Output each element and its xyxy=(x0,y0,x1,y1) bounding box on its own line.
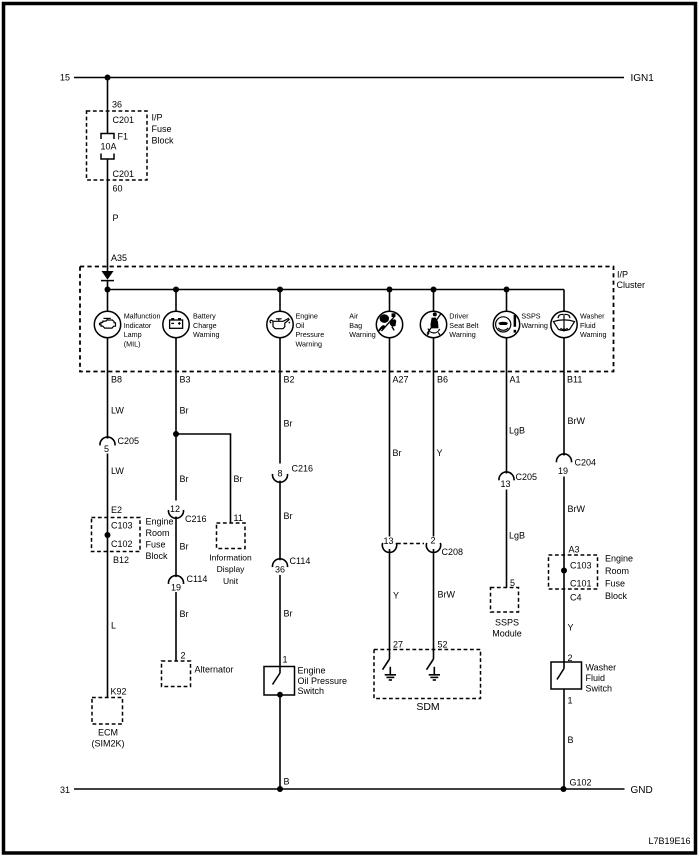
svg-text:C101: C101 xyxy=(570,578,592,588)
svg-text:Room: Room xyxy=(605,566,629,576)
svg-text:Washer: Washer xyxy=(580,311,605,320)
svg-text:Fluid: Fluid xyxy=(586,673,606,683)
svg-text:B: B xyxy=(568,735,574,745)
svg-text:Br: Br xyxy=(284,418,293,428)
svg-text:10A: 10A xyxy=(101,142,117,152)
svg-text:Bag: Bag xyxy=(349,321,362,330)
svg-text:E2: E2 xyxy=(111,505,122,515)
svg-text:Battery: Battery xyxy=(193,311,216,320)
svg-text:Alternator: Alternator xyxy=(195,664,234,674)
svg-text:G102: G102 xyxy=(570,777,592,787)
svg-text:BrW: BrW xyxy=(568,416,586,426)
svg-text:31: 31 xyxy=(60,785,70,795)
svg-text:(MIL): (MIL) xyxy=(124,340,141,349)
svg-text:52: 52 xyxy=(438,639,448,649)
svg-text:15: 15 xyxy=(60,73,70,83)
svg-text:Driver: Driver xyxy=(449,311,469,320)
svg-text:ECM: ECM xyxy=(98,727,118,737)
svg-text:LgB: LgB xyxy=(509,425,525,435)
svg-text:Cluster: Cluster xyxy=(617,280,646,290)
svg-text:Warning: Warning xyxy=(580,330,607,339)
svg-text:13: 13 xyxy=(384,536,394,546)
svg-text:Lamp: Lamp xyxy=(124,330,142,339)
svg-text:Pressure: Pressure xyxy=(296,330,325,339)
svg-text:LW: LW xyxy=(111,405,124,415)
svg-text:Room: Room xyxy=(146,528,170,538)
svg-text:SSPS: SSPS xyxy=(495,617,519,627)
svg-text:SDM: SDM xyxy=(416,701,439,713)
svg-text:Warning: Warning xyxy=(349,330,376,339)
svg-text:B6: B6 xyxy=(437,374,448,384)
svg-text:Seat Belt: Seat Belt xyxy=(449,321,478,330)
svg-text:Y: Y xyxy=(437,448,443,458)
svg-text:Br: Br xyxy=(284,511,293,521)
svg-text:Br: Br xyxy=(180,609,189,619)
svg-text:C205: C205 xyxy=(516,472,538,482)
svg-text:Engine: Engine xyxy=(298,665,326,675)
svg-text:L7B19E16: L7B19E16 xyxy=(649,836,691,846)
svg-text:5: 5 xyxy=(104,444,109,454)
svg-text:B3: B3 xyxy=(180,374,191,384)
svg-text:Fuse: Fuse xyxy=(605,578,625,588)
svg-text:Br: Br xyxy=(393,448,402,458)
svg-text:Fuse: Fuse xyxy=(146,539,166,549)
svg-text:13: 13 xyxy=(501,479,511,489)
svg-text:C103: C103 xyxy=(570,560,592,570)
svg-text:1: 1 xyxy=(283,654,288,664)
svg-text:C201: C201 xyxy=(113,115,135,125)
svg-text:2: 2 xyxy=(181,650,186,660)
svg-text:Switch: Switch xyxy=(298,686,325,696)
svg-text:C205: C205 xyxy=(118,436,140,446)
svg-text:Switch: Switch xyxy=(586,683,613,693)
svg-text:1: 1 xyxy=(568,695,573,705)
svg-text:BrW: BrW xyxy=(438,589,456,599)
svg-text:P: P xyxy=(113,213,119,223)
svg-text:Warning: Warning xyxy=(521,321,548,330)
svg-text:LgB: LgB xyxy=(509,530,525,540)
svg-text:8: 8 xyxy=(278,468,283,478)
svg-text:36: 36 xyxy=(275,564,285,574)
svg-text:Br: Br xyxy=(234,474,243,484)
svg-text:Malfunction: Malfunction xyxy=(124,311,161,320)
svg-text:SSPS: SSPS xyxy=(521,311,540,320)
svg-text:Fuse: Fuse xyxy=(152,124,172,134)
svg-text:27: 27 xyxy=(393,639,403,649)
svg-text:C103: C103 xyxy=(111,521,133,531)
svg-text:Warning: Warning xyxy=(296,340,323,349)
svg-text:A1: A1 xyxy=(510,374,521,384)
svg-text:Charge: Charge xyxy=(193,321,217,330)
svg-text:C204: C204 xyxy=(575,457,597,467)
svg-text:C201: C201 xyxy=(113,169,135,179)
svg-text:Block: Block xyxy=(146,551,169,561)
svg-text:Display: Display xyxy=(217,564,246,574)
svg-text:C114: C114 xyxy=(187,574,208,584)
svg-text:60: 60 xyxy=(113,183,123,193)
svg-text:5: 5 xyxy=(510,578,515,588)
svg-text:B2: B2 xyxy=(284,374,295,384)
svg-text:Indicator: Indicator xyxy=(124,321,152,330)
svg-text:Information: Information xyxy=(209,553,252,563)
svg-text:Air: Air xyxy=(349,311,358,320)
svg-text:Warning: Warning xyxy=(449,330,476,339)
svg-text:C114: C114 xyxy=(290,556,311,566)
svg-text:Fluid: Fluid xyxy=(580,321,596,330)
svg-text:B12: B12 xyxy=(113,555,129,565)
svg-text:IGN1: IGN1 xyxy=(631,73,655,84)
svg-text:Oil Pressure: Oil Pressure xyxy=(298,676,348,686)
svg-text:A35: A35 xyxy=(111,253,127,263)
svg-text:C216: C216 xyxy=(292,463,314,473)
svg-text:Washer: Washer xyxy=(586,662,617,672)
svg-text:Y: Y xyxy=(568,622,574,632)
svg-text:A3: A3 xyxy=(569,544,580,554)
svg-text:A27: A27 xyxy=(393,374,409,384)
svg-text:F1: F1 xyxy=(118,132,129,142)
svg-text:B: B xyxy=(284,776,290,786)
svg-text:C216: C216 xyxy=(185,514,207,524)
svg-text:Br: Br xyxy=(180,405,189,415)
svg-text:Br: Br xyxy=(180,541,189,551)
svg-text:K92: K92 xyxy=(111,686,127,696)
svg-text:C208: C208 xyxy=(442,547,464,557)
svg-text:Oil: Oil xyxy=(296,321,305,330)
svg-text:I/P: I/P xyxy=(617,270,628,280)
svg-text:11: 11 xyxy=(234,513,243,523)
svg-text:36: 36 xyxy=(112,99,122,109)
svg-text:Block: Block xyxy=(605,591,628,601)
svg-text:Engine: Engine xyxy=(296,311,318,320)
svg-text:Y: Y xyxy=(393,590,399,600)
svg-text:Engine: Engine xyxy=(605,553,633,563)
svg-text:19: 19 xyxy=(171,582,181,592)
svg-text:Engine: Engine xyxy=(146,516,174,526)
svg-text:Module: Module xyxy=(492,628,522,638)
svg-text:L: L xyxy=(111,620,116,630)
svg-text:I/P: I/P xyxy=(152,112,163,122)
svg-text:19: 19 xyxy=(558,466,568,476)
svg-text:Br: Br xyxy=(180,474,189,484)
svg-text:LW: LW xyxy=(111,466,124,476)
svg-text:B11: B11 xyxy=(567,374,582,384)
svg-text:(SIM2K): (SIM2K) xyxy=(91,738,124,748)
svg-text:12: 12 xyxy=(170,504,180,514)
svg-text:Warning: Warning xyxy=(193,330,220,339)
svg-text:BrW: BrW xyxy=(568,504,586,514)
svg-text:C102: C102 xyxy=(111,539,133,549)
svg-text:GND: GND xyxy=(631,785,653,796)
svg-text:Unit: Unit xyxy=(223,576,239,586)
svg-text:Block: Block xyxy=(152,135,175,145)
svg-text:B8: B8 xyxy=(111,374,122,384)
svg-text:2: 2 xyxy=(431,536,436,546)
svg-text:C4: C4 xyxy=(570,592,582,602)
svg-text:Br: Br xyxy=(284,608,293,618)
